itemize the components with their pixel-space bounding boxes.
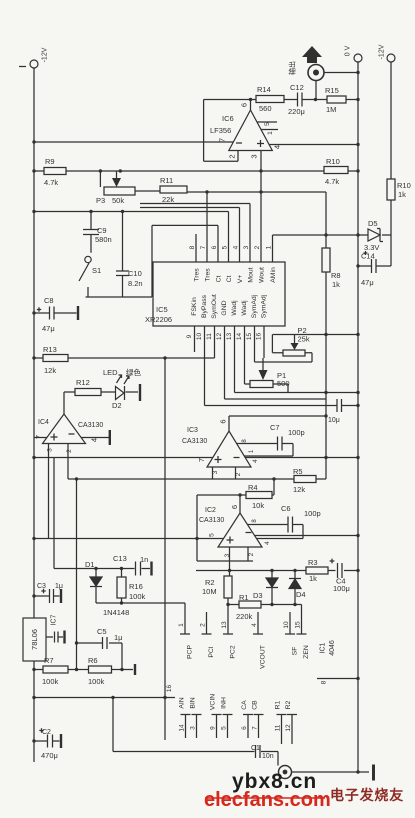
svg-text:R6: R6 <box>88 656 98 665</box>
svg-text:R10: R10 <box>326 157 340 166</box>
svg-text:SF: SF <box>292 647 299 656</box>
svg-text:1μ: 1μ <box>114 633 123 642</box>
svg-text:5: 5 <box>221 726 228 730</box>
svg-text:8.2n: 8.2n <box>128 279 143 288</box>
svg-text:100μ: 100μ <box>333 584 350 593</box>
svg-text:1N4148: 1N4148 <box>103 608 129 617</box>
svg-text:2: 2 <box>248 552 255 556</box>
svg-text:6: 6 <box>219 419 228 423</box>
svg-text:LED: LED <box>103 368 118 377</box>
svg-text:FSKin: FSKin <box>191 297 198 316</box>
svg-text:Ct: Ct <box>216 275 223 282</box>
svg-text:16: 16 <box>166 685 173 693</box>
svg-text:78L06: 78L06 <box>30 629 39 650</box>
svg-text:22k: 22k <box>162 195 174 204</box>
svg-text:IC5: IC5 <box>156 305 168 314</box>
svg-text:电子发烧友: 电子发烧友 <box>330 787 404 803</box>
svg-text:PC2: PC2 <box>230 645 237 658</box>
svg-text:ZEN: ZEN <box>303 645 310 659</box>
svg-text:INH: INH <box>221 697 228 709</box>
svg-text:P3: P3 <box>96 196 105 205</box>
svg-text:R7: R7 <box>44 656 54 665</box>
svg-text:R2: R2 <box>285 700 292 709</box>
svg-text:R3: R3 <box>308 558 318 567</box>
svg-text:5: 5 <box>222 245 229 249</box>
svg-text:R5: R5 <box>293 467 303 476</box>
svg-text:VCOUT: VCOUT <box>260 645 267 669</box>
svg-text:10k: 10k <box>252 501 264 510</box>
svg-text:C2: C2 <box>42 729 51 736</box>
svg-text:R16: R16 <box>129 582 143 591</box>
svg-text:470μ: 470μ <box>41 751 58 760</box>
svg-text:1M: 1M <box>326 105 336 114</box>
svg-text:IC4: IC4 <box>38 419 49 426</box>
svg-text:SymOut: SymOut <box>211 294 218 319</box>
svg-text:10μ: 10μ <box>328 417 340 424</box>
svg-text:R15: R15 <box>325 86 339 95</box>
svg-text:8: 8 <box>189 245 196 249</box>
svg-text:C6: C6 <box>281 504 291 513</box>
svg-text:6: 6 <box>230 505 239 509</box>
svg-text:3: 3 <box>190 726 197 730</box>
svg-text:C3: C3 <box>37 583 46 590</box>
svg-text:R4: R4 <box>248 483 258 492</box>
svg-text:PCI: PCI <box>208 646 215 657</box>
svg-text:C7: C7 <box>270 423 280 432</box>
svg-text:100p: 100p <box>304 509 321 518</box>
svg-text:3: 3 <box>243 245 250 249</box>
svg-text:R14: R14 <box>257 85 271 94</box>
svg-text:VCIN: VCIN <box>210 694 217 710</box>
svg-text:14: 14 <box>236 333 243 341</box>
svg-text:6: 6 <box>240 103 249 107</box>
svg-text:4: 4 <box>90 438 99 442</box>
svg-text:2: 2 <box>228 154 237 158</box>
svg-text:2: 2 <box>200 623 207 627</box>
svg-text:100p: 100p <box>288 428 305 437</box>
svg-text:50k: 50k <box>112 196 124 205</box>
svg-text:11: 11 <box>275 724 282 731</box>
svg-text:220μ: 220μ <box>288 107 305 116</box>
svg-text:SymAdj: SymAdj <box>251 294 258 318</box>
svg-text:3: 3 <box>250 154 259 158</box>
svg-text:15: 15 <box>246 333 253 341</box>
svg-text:0 V: 0 V <box>345 45 352 56</box>
svg-text:560: 560 <box>259 104 272 113</box>
svg-text:13: 13 <box>226 333 233 341</box>
svg-text:输出: 输出 <box>288 61 297 75</box>
svg-text:AIN: AIN <box>179 697 186 708</box>
svg-text:4: 4 <box>273 145 282 149</box>
svg-text:2: 2 <box>235 472 242 476</box>
svg-text:D2: D2 <box>112 401 122 410</box>
svg-text:47μ: 47μ <box>42 324 55 333</box>
svg-text:500: 500 <box>277 379 290 388</box>
svg-text:4: 4 <box>251 623 258 627</box>
svg-text:3: 3 <box>47 448 54 452</box>
svg-text:IC6: IC6 <box>222 114 234 123</box>
svg-text:CB: CB <box>252 700 259 710</box>
svg-text:ByPass: ByPass <box>201 294 208 318</box>
svg-text:4046: 4046 <box>329 640 336 656</box>
svg-text:47μ: 47μ <box>361 278 374 287</box>
svg-text:1k: 1k <box>309 574 317 583</box>
svg-text:1: 1 <box>178 623 185 627</box>
svg-text:D3: D3 <box>253 591 263 600</box>
svg-text:220k: 220k <box>236 612 253 621</box>
svg-text:1μ: 1μ <box>55 583 63 590</box>
svg-text:C12: C12 <box>290 83 304 92</box>
svg-text:D1: D1 <box>85 560 95 569</box>
svg-text:12: 12 <box>216 333 223 341</box>
svg-text:6: 6 <box>211 245 218 249</box>
svg-text:R8: R8 <box>331 271 341 280</box>
svg-text:R12: R12 <box>76 378 90 387</box>
svg-text:2: 2 <box>66 449 73 453</box>
svg-text:-12V: -12V <box>42 47 49 62</box>
svg-text:CA: CA <box>241 700 248 710</box>
svg-text:3: 3 <box>224 553 231 557</box>
svg-text:elecfans.com: elecfans.com <box>204 789 331 811</box>
svg-text:10M: 10M <box>202 587 217 596</box>
svg-text:R1: R1 <box>239 593 249 602</box>
svg-text:绿色: 绿色 <box>126 367 141 377</box>
svg-text:6: 6 <box>241 726 248 730</box>
svg-text:IC2: IC2 <box>205 507 216 514</box>
svg-text:R13: R13 <box>43 345 57 354</box>
svg-text:10n: 10n <box>262 753 274 760</box>
svg-text:25k: 25k <box>298 335 310 344</box>
svg-text:Tres: Tres <box>194 268 201 282</box>
svg-text:14: 14 <box>179 724 186 732</box>
svg-text:V+: V+ <box>237 275 244 284</box>
svg-text:12k: 12k <box>293 485 305 494</box>
svg-text:9: 9 <box>186 334 193 338</box>
svg-text:-12V: -12V <box>379 44 386 59</box>
svg-text:7: 7 <box>34 435 43 439</box>
svg-text:C14: C14 <box>361 252 375 261</box>
svg-text:AMin: AMin <box>270 267 277 283</box>
svg-text:R2: R2 <box>205 578 215 587</box>
svg-text:9: 9 <box>210 726 217 730</box>
svg-text:Tres: Tres <box>205 268 212 282</box>
svg-text:12k: 12k <box>44 366 56 375</box>
svg-text:R11: R11 <box>160 176 173 185</box>
svg-text:R1: R1 <box>275 700 282 709</box>
svg-text:15: 15 <box>295 621 302 629</box>
svg-text:CA3130: CA3130 <box>78 422 103 429</box>
svg-text:C9: C9 <box>97 226 107 235</box>
svg-text:4.7k: 4.7k <box>44 178 58 187</box>
svg-text:13: 13 <box>221 621 228 629</box>
svg-text:IC7: IC7 <box>51 614 58 625</box>
svg-text:D4: D4 <box>296 590 306 599</box>
svg-text:R9: R9 <box>45 157 55 166</box>
svg-text:4: 4 <box>252 459 259 463</box>
svg-text:8: 8 <box>321 680 328 684</box>
svg-text:IC3: IC3 <box>187 427 198 434</box>
svg-text:7: 7 <box>218 138 227 142</box>
svg-text:7: 7 <box>200 245 207 249</box>
svg-text:Wout: Wout <box>259 267 266 283</box>
svg-text:GND: GND <box>221 300 228 315</box>
svg-text:1k: 1k <box>332 280 340 289</box>
svg-text:100k: 100k <box>129 592 146 601</box>
svg-text:Ct: Ct <box>226 275 233 282</box>
svg-text:7: 7 <box>252 726 259 730</box>
svg-text:580n: 580n <box>95 235 112 244</box>
svg-text:7: 7 <box>197 458 206 462</box>
svg-text:1: 1 <box>266 245 273 249</box>
svg-text:C13: C13 <box>113 554 127 563</box>
svg-text:S1: S1 <box>92 266 101 275</box>
svg-text:IC1: IC1 <box>320 642 327 653</box>
svg-text:LF356: LF356 <box>210 126 231 135</box>
svg-text:5: 5 <box>209 533 216 537</box>
svg-text:Mout: Mout <box>248 267 255 282</box>
svg-text:XR2206: XR2206 <box>145 315 172 324</box>
svg-text:C10: C10 <box>128 269 142 278</box>
svg-text:3: 3 <box>212 470 219 474</box>
svg-text:R10: R10 <box>397 181 411 190</box>
svg-text:Wadj: Wadj <box>231 300 238 316</box>
svg-text:SymAdj: SymAdj <box>261 294 268 318</box>
svg-text:BIN: BIN <box>190 697 197 708</box>
svg-text:CA3130: CA3130 <box>182 438 207 445</box>
svg-text:C1: C1 <box>251 745 260 752</box>
svg-text:CA3130: CA3130 <box>199 517 224 524</box>
svg-text:C8: C8 <box>44 296 54 305</box>
svg-text:4: 4 <box>264 541 271 545</box>
svg-text:1: 1 <box>267 131 274 135</box>
svg-text:C5: C5 <box>97 627 107 636</box>
svg-text:12: 12 <box>285 724 292 732</box>
svg-text:4: 4 <box>233 245 240 249</box>
svg-text:Wadj: Wadj <box>241 300 248 316</box>
svg-text:100k: 100k <box>88 677 105 686</box>
svg-text:1k: 1k <box>398 190 406 199</box>
svg-text:1n: 1n <box>140 555 148 564</box>
svg-text:10: 10 <box>283 621 290 629</box>
svg-text:4.7k: 4.7k <box>325 177 339 186</box>
svg-text:11: 11 <box>206 333 213 340</box>
svg-text:5: 5 <box>264 122 271 126</box>
svg-text:100k: 100k <box>42 677 59 686</box>
svg-text:10: 10 <box>196 333 203 341</box>
svg-text:16: 16 <box>256 333 263 341</box>
svg-text:D5: D5 <box>368 219 378 228</box>
svg-text:PCP: PCP <box>187 645 194 659</box>
svg-text:2: 2 <box>254 245 261 249</box>
